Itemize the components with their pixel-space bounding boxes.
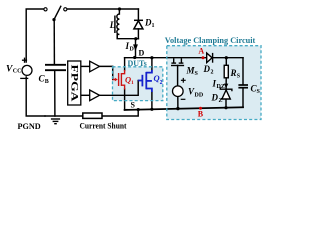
resistor Rs: [224, 65, 228, 78]
svg-text:D: D: [130, 47, 135, 53]
FPGA box: [68, 61, 81, 105]
wire ID vertical: [135, 39, 137, 58]
transistor Q1 (red): [113, 70, 125, 90]
wire CB bottom to ground junction: [54, 71, 56, 116]
svg-text:L: L: [109, 20, 116, 30]
voltage clamping circuit dashed box: [167, 46, 261, 120]
svg-text:Z: Z: [219, 98, 223, 104]
transistor Q2 (blue): [138, 70, 152, 92]
wire Rs bottom to zener: [225, 78, 227, 90]
svg-text:PGND: PGND: [18, 122, 41, 131]
wire Q1 drain black: [124, 58, 126, 71]
junction dot L top tap: [118, 7, 121, 10]
svg-text:2: 2: [211, 70, 214, 76]
bottom rail S to Cs: [125, 107, 243, 110]
svg-text:DUTs: DUTs: [128, 59, 147, 68]
junction dot Rs top: [225, 56, 228, 59]
Vcc plus: [22, 58, 27, 63]
wire L bottom joint horizontal: [117, 35, 138, 39]
wire L top tap: [118, 9, 120, 14]
current IDZ arrow: [224, 84, 228, 89]
voltage clamping circuit box fill: [167, 46, 261, 120]
Vcc minus: [20, 77, 28, 79]
svg-text:DD: DD: [195, 93, 204, 99]
wire Q2 source black: [151, 92, 153, 110]
capacitor CB: [45, 65, 66, 70]
DUTs box dashed: [113, 67, 163, 101]
wire buffer1 out to Q1 gate: [100, 66, 113, 79]
svg-text:FPGA: FPGA: [68, 65, 78, 102]
node A: [202, 56, 205, 59]
current shunt resistor: [83, 113, 102, 118]
switch circle 1: [44, 8, 47, 11]
wire top: switch to D1 corner: [67, 8, 138, 10]
wire Vdd bottom to rail: [177, 96, 179, 108]
wire buffer2 out to Q2 gate: [100, 81, 139, 96]
svg-text:D: D: [139, 49, 145, 58]
wire Q2 drain black: [151, 58, 153, 71]
wire Rs top: [225, 58, 227, 66]
svg-text:S: S: [131, 101, 136, 110]
node B: [199, 107, 202, 110]
node S (junction dots on bottom rail): [137, 108, 140, 111]
node D dot: [133, 56, 136, 59]
buffer 2: [90, 90, 100, 101]
capacitor Cs: [238, 85, 248, 88]
wire Ms gate stem to Vdd: [177, 66, 179, 87]
svg-text:2: 2: [160, 80, 163, 86]
switch circle 2: [64, 8, 67, 11]
ground PGND: [51, 119, 60, 124]
wire shunt to S-rail tap: [102, 110, 138, 116]
wire Cs bottom to rail: [242, 89, 244, 108]
junction dot DZ bottom: [224, 106, 227, 109]
switch pivot dot: [52, 18, 55, 21]
wire FPGA to buffer2: [81, 94, 90, 96]
node Q2 drain dot: [150, 56, 153, 59]
zener diode DZ: [220, 87, 232, 99]
wire D1 bottom to joint: [137, 29, 139, 39]
svg-text:A: A: [198, 46, 204, 55]
Vdd source: [173, 86, 184, 97]
wire top left: Vcc rail up and top wire to switch: [26, 9, 44, 62]
wire switch pivot down to CB: [53, 20, 55, 64]
node Vdd rail dot: [176, 107, 179, 110]
switch blade: [54, 6, 61, 20]
diode D2: [207, 53, 213, 63]
DUTs box fill: [113, 67, 163, 101]
buffer 1: [90, 61, 100, 72]
wire Q1 source black: [124, 89, 126, 110]
wire Cs top: [242, 58, 244, 84]
svg-text:Current Shunt: Current Shunt: [80, 121, 127, 131]
current ID arrow: [133, 44, 138, 51]
main mid rail D to Cs corner: [125, 57, 243, 59]
junction dot L-D1 joint: [134, 37, 137, 40]
wire Vcc bottom to PGND corner: [26, 77, 45, 116]
svg-text:1: 1: [131, 80, 134, 86]
wire zener bottom to rail: [225, 99, 227, 108]
svg-text:CC: CC: [13, 69, 22, 75]
svg-text:Voltage Clamping Circuit: Voltage Clamping Circuit: [165, 35, 256, 45]
svg-text:R: R: [230, 68, 237, 78]
transistor Ms: [171, 58, 184, 65]
diode D1: [134, 20, 143, 29]
wire D1 top: [137, 9, 139, 20]
svg-text:B: B: [198, 110, 204, 119]
svg-text:1: 1: [152, 23, 155, 29]
inductor L: [115, 14, 120, 39]
Vcc source circle: [22, 65, 32, 75]
svg-text:B: B: [45, 79, 49, 85]
wire bottom: ground to shunt: [45, 115, 83, 117]
svg-text:D: D: [211, 93, 219, 103]
wire FPGA to buffer1: [81, 65, 90, 67]
svg-text:D: D: [203, 64, 211, 74]
